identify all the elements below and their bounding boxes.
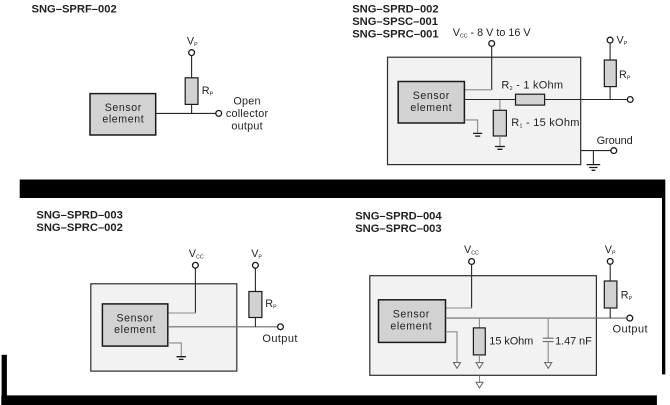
svg-text:SNG–SPRC–003: SNG–SPRC–003 bbox=[355, 223, 441, 235]
svg-text:element: element bbox=[102, 113, 144, 125]
svg-text:Open: Open bbox=[233, 96, 260, 108]
svg-text:output: output bbox=[231, 121, 263, 133]
svg-text:1.47 nF: 1.47 nF bbox=[555, 336, 592, 348]
svg-text:SNG–SPRD–002: SNG–SPRD–002 bbox=[352, 4, 438, 16]
svg-text:15 kOhm: 15 kOhm bbox=[489, 336, 533, 348]
svg-text:Ground: Ground bbox=[597, 135, 633, 147]
svg-text:Sensor: Sensor bbox=[393, 309, 430, 321]
svg-text:SNG–SPRD–003: SNG–SPRD–003 bbox=[36, 210, 122, 222]
svg-text:Sensor: Sensor bbox=[413, 90, 450, 102]
svg-text:Output: Output bbox=[262, 333, 297, 345]
svg-text:Sensor: Sensor bbox=[105, 102, 142, 114]
svg-text:SNG–SPRC–001: SNG–SPRC–001 bbox=[352, 28, 438, 40]
svg-text:element: element bbox=[114, 324, 156, 336]
svg-text:SNG–SPRC–002: SNG–SPRC–002 bbox=[36, 222, 122, 234]
svg-text:Sensor: Sensor bbox=[117, 312, 154, 324]
svg-text:element: element bbox=[390, 321, 432, 333]
svg-text:SNG–SPRD–004: SNG–SPRD–004 bbox=[355, 211, 442, 223]
svg-text:collector: collector bbox=[226, 108, 269, 120]
svg-text:Output: Output bbox=[613, 323, 648, 335]
svg-text:SNG–SPSC–001: SNG–SPSC–001 bbox=[352, 16, 438, 28]
svg-text:SNG–SPRF–002: SNG–SPRF–002 bbox=[32, 4, 117, 16]
svg-text:element: element bbox=[410, 102, 452, 114]
